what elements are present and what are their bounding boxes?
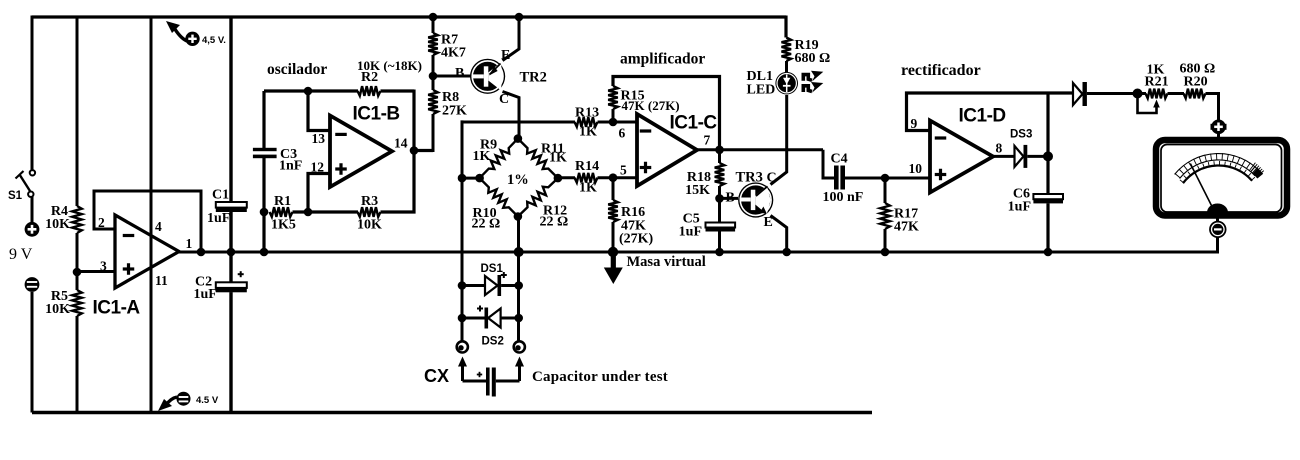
svg-text:14: 14 (394, 136, 408, 151)
battery positive terminal (25, 222, 40, 237)
wire R2 to node 14 (381, 89, 415, 92)
node DS2 right (514, 314, 523, 323)
wire IC1-A feedback loop pin 2 to output (94, 191, 201, 252)
svg-text:1K: 1K (473, 149, 491, 164)
svg-text:8: 8 (996, 141, 1003, 156)
node C5 mid rail (715, 248, 724, 257)
svg-text:C1: C1 (212, 188, 229, 203)
wire diode to R21 (1087, 92, 1146, 95)
wire bridge feed row R13 (462, 121, 575, 124)
svg-text:1K: 1K (549, 151, 567, 166)
wire R4 to R5 (76, 233, 79, 290)
capacitor C6 (1008, 187, 1063, 215)
wire top +9V rail (32, 15, 786, 18)
node TR2 emitter rail (515, 13, 524, 22)
resistor R10 bridge SW (472, 178, 518, 231)
meter needle (1190, 164, 1213, 209)
node C3 mid rail (260, 248, 269, 257)
wire TR3 base (720, 197, 739, 200)
svg-text:DS1: DS1 (481, 263, 504, 275)
wire top rail corner to R19 (784, 16, 787, 38)
wire R7 to TR2 base node (432, 55, 435, 90)
wire rail to R4 (76, 16, 79, 207)
svg-text:DS2: DS2 (482, 336, 504, 348)
wire TR3 collector to LED (771, 95, 787, 185)
annotation +4.5V marker (166, 21, 226, 46)
wire pin 3 input (77, 270, 115, 273)
wire DS3 to C6 column (1027, 155, 1048, 158)
resistor R5 (45, 289, 82, 317)
node bridge right (554, 174, 563, 183)
wire oscillator top row (264, 89, 358, 92)
svg-text:R20: R20 (1184, 75, 1208, 90)
wire top rail to C1 (229, 16, 232, 203)
svg-text:R3: R3 (361, 194, 378, 209)
svg-text:B: B (726, 191, 735, 206)
svg-text:4K7: 4K7 (441, 46, 466, 61)
node R21 wiper junction (1133, 89, 1143, 99)
svg-text:4.5 V: 4.5 V (196, 395, 219, 406)
LED DL1 (775, 72, 798, 95)
annotation 4.5V marker at bottom (158, 392, 219, 411)
svg-text:4,5 V.: 4,5 V. (202, 35, 226, 46)
diode DS3 (1010, 129, 1032, 168)
resistor R19 (782, 38, 831, 67)
node C1 C2 junction (227, 248, 236, 257)
op-amp IC1-D (930, 106, 1006, 193)
node bridge left branch (458, 174, 467, 183)
svg-text:LED: LED (747, 83, 776, 98)
switch S1 (8, 170, 35, 202)
svg-text:7: 7 (704, 133, 711, 148)
wire meter negative to mid rail (1216, 214, 1219, 222)
node bridge bottom (514, 212, 523, 221)
resistor R14 (575, 159, 600, 196)
node C6 mid rail (1044, 248, 1053, 257)
node divider midpoint (73, 268, 82, 277)
svg-text:R1: R1 (274, 194, 291, 209)
meter negative terminal (1210, 222, 1226, 238)
svg-text:S1: S1 (8, 190, 23, 202)
node R7 top rail (429, 13, 438, 22)
wire C1 to mid rail (229, 212, 232, 252)
svg-text:100 nF: 100 nF (823, 190, 864, 205)
svg-text:1%: 1% (507, 172, 529, 188)
wire R19 to LED (785, 61, 788, 73)
node R16 top (609, 173, 618, 182)
svg-text:1K: 1K (579, 125, 597, 140)
wire R15 to pin 6 node (612, 109, 615, 122)
node DS2 left (458, 314, 467, 323)
node pin 6 (609, 118, 618, 127)
wire C2 to bottom rail (229, 292, 232, 412)
node DS3 C6 junction (1043, 151, 1053, 161)
wire R3 up to node 14 (381, 151, 415, 213)
svg-text:amplificador: amplificador (620, 51, 705, 68)
wire TR2 emitter to top rail (503, 16, 520, 61)
svg-text:R2: R2 (361, 70, 378, 85)
resistor R1 (270, 194, 296, 233)
svg-text:13: 13 (312, 131, 326, 146)
wire IC1-D feedback loop pin 9 (907, 93, 1074, 131)
ground symbol masa virtual arrow (604, 252, 623, 284)
wire to bridge left node (462, 177, 480, 180)
wire mid rail to C2 (229, 252, 232, 283)
wire C3 node to mid rail (262, 212, 265, 252)
node TR3 base (715, 194, 724, 203)
svg-text:6: 6 (619, 126, 626, 141)
wire C6 column (1046, 93, 1049, 195)
op-amp IC1-A (93, 215, 180, 319)
svg-text:10K: 10K (45, 217, 70, 232)
diode DS2 (462, 306, 519, 348)
capacitor C1 (207, 188, 247, 227)
svg-text:Masa virtual: Masa virtual (627, 254, 706, 270)
node R17 top (881, 174, 890, 183)
LED light ray arrows (803, 71, 823, 93)
node DS1 left (458, 281, 467, 290)
resistor R17 (880, 178, 919, 252)
resistor R7 (428, 33, 466, 61)
meter scale arcs (1175, 153, 1264, 183)
resistor R11 bridge NE (518, 139, 567, 179)
wire rail to R7 (432, 16, 435, 34)
resistor R13 (575, 106, 600, 140)
wire pin 12 input (308, 174, 331, 213)
svg-text:CX: CX (424, 366, 449, 386)
wire meter positive to meter (1217, 131, 1220, 140)
op-amp IC1-B (330, 104, 400, 188)
resistor R12 bridge SE (518, 178, 568, 229)
wire node 14 drop (412, 90, 415, 151)
transistor TR3 (738, 182, 773, 217)
node 14 output (410, 146, 419, 155)
svg-text:10: 10 (909, 161, 923, 176)
svg-text:IC1-B: IC1-B (353, 104, 400, 125)
resistor R9 bridge NW (473, 138, 518, 179)
diode DS1 (462, 263, 519, 296)
svg-text:TR2: TR2 (520, 70, 547, 86)
wire R8 to node 14 (432, 114, 435, 152)
svg-text:DS3: DS3 (1010, 129, 1032, 141)
svg-text:3: 3 (100, 259, 107, 274)
svg-text:10K: 10K (45, 302, 70, 317)
svg-text:(27K): (27K) (619, 232, 654, 247)
svg-text:IC1-D: IC1-D (959, 106, 1006, 127)
node R16 mid rail masa (608, 247, 618, 257)
svg-text:22 Ω: 22 Ω (540, 215, 569, 230)
resistor R20 (1180, 62, 1216, 99)
svg-text:9: 9 (911, 116, 918, 131)
node DS1 right (514, 281, 523, 290)
svg-text:IC1-C: IC1-C (670, 113, 718, 134)
svg-text:1uF: 1uF (194, 287, 217, 302)
svg-text:1uF: 1uF (1008, 200, 1031, 215)
svg-text:5: 5 (620, 163, 627, 178)
capacitor under test CX symbol (458, 357, 524, 397)
resistor R18 (685, 150, 724, 199)
wire IC1-C feedback loop (613, 77, 720, 151)
svg-text:R14: R14 (575, 159, 599, 174)
resistor R4 (45, 204, 82, 233)
svg-text:Capacitor under test: Capacitor under test (532, 369, 668, 385)
diode rectifier top (1073, 83, 1083, 105)
resistor R3 (357, 194, 382, 233)
wire R13 to pin 6 (598, 121, 638, 124)
trimmer R21 (1138, 63, 1169, 114)
svg-text:4: 4 (155, 219, 162, 234)
svg-text:1uF: 1uF (679, 225, 702, 240)
wire switch to battery positive (31, 197, 34, 223)
node bridge top (514, 134, 523, 143)
svg-text:1nF: 1nF (279, 159, 302, 174)
resistor R2 (357, 58, 422, 96)
wire IC1-D output (993, 155, 1015, 158)
socket terminal CX right (514, 341, 525, 352)
wire R5 to bottom rail (76, 316, 79, 413)
wire C6 to mid rail (1046, 203, 1049, 252)
node pin 7 feedback R18 (715, 146, 724, 155)
capacitor C2 (194, 271, 247, 302)
svg-text:1K5: 1K5 (271, 218, 296, 233)
svg-text:47K: 47K (894, 220, 919, 235)
node TR3 emitter rail (782, 248, 791, 257)
wire battery negative to bottom rail (31, 292, 34, 413)
resistor R16 (608, 178, 653, 252)
node R1 C3 junction (260, 208, 269, 217)
wire bridge left column (461, 120, 464, 341)
svg-text:27K: 27K (442, 104, 467, 119)
capacitor C3 (253, 91, 302, 174)
wire pin 13 input (308, 91, 331, 131)
wire TR3 emitter to mid rail (771, 216, 787, 253)
wire TR2 base (433, 75, 471, 78)
node TR2 base (429, 72, 438, 81)
resistor R8 (428, 90, 467, 119)
svg-text:22 Ω: 22 Ω (472, 217, 501, 232)
wire pin 7 row to C4 (823, 150, 834, 178)
svg-text:R21: R21 (1145, 75, 1169, 90)
node bridge left (475, 174, 484, 183)
capacitor C5 (679, 198, 735, 252)
node bridge rail junction (514, 247, 524, 257)
wire C3 to R1 node (262, 158, 265, 212)
wire virtual-ground mid rail (179, 251, 1218, 254)
wire R1 to R3 (293, 210, 359, 213)
svg-text:15K: 15K (685, 183, 710, 198)
wire node 14 to R8 column (414, 149, 433, 152)
svg-text:47K (27K): 47K (27K) (622, 98, 680, 113)
op-amp IC1-C (637, 113, 717, 187)
wire R14 to pin 5 (598, 176, 638, 179)
socket terminal CX left (457, 341, 468, 352)
meter pivot (1207, 204, 1228, 213)
svg-text:TR3: TR3 (736, 170, 763, 186)
svg-text:10K: 10K (357, 218, 382, 233)
capacitor C4 (823, 152, 864, 206)
node R17 mid rail (881, 248, 890, 257)
node IC1-A output (197, 248, 206, 257)
svg-text:9 V: 9 V (9, 246, 33, 263)
wire C4 to pin 10 (845, 177, 930, 180)
svg-text:rectificador: rectificador (901, 62, 981, 79)
svg-text:B: B (455, 66, 464, 81)
wire R20 to meter positive (1206, 94, 1219, 121)
svg-text:11: 11 (155, 273, 168, 288)
battery negative terminal (25, 277, 40, 292)
meter body (1156, 140, 1287, 216)
svg-text:IC1-A: IC1-A (93, 298, 141, 319)
svg-text:680 Ω: 680 Ω (795, 51, 831, 66)
node pin 13 branch (304, 87, 313, 96)
meter positive terminal (1211, 120, 1227, 135)
wire left battery rail upper segment (31, 16, 34, 171)
svg-text:1K: 1K (579, 181, 597, 196)
wire R21 to R20 (1168, 92, 1185, 95)
wire IC1-C output row (697, 148, 823, 151)
transistor TR2 (470, 59, 505, 94)
wire bridge bottom to rail (517, 217, 520, 342)
wire IC1 power rail pins 4 and 11 (150, 16, 153, 413)
svg-text:1: 1 (186, 236, 193, 251)
wire bridge right to R14 (558, 176, 575, 179)
wire bottom 0V rail (32, 411, 872, 415)
svg-text:oscilador: oscilador (267, 61, 327, 78)
wire TR2 collector to bridge top (503, 92, 520, 139)
svg-text:C4: C4 (831, 152, 848, 167)
resistor R15 (608, 86, 679, 113)
node pin 12 branch (304, 208, 313, 217)
svg-text:1uF: 1uF (207, 211, 230, 226)
svg-text:R13: R13 (575, 106, 599, 121)
